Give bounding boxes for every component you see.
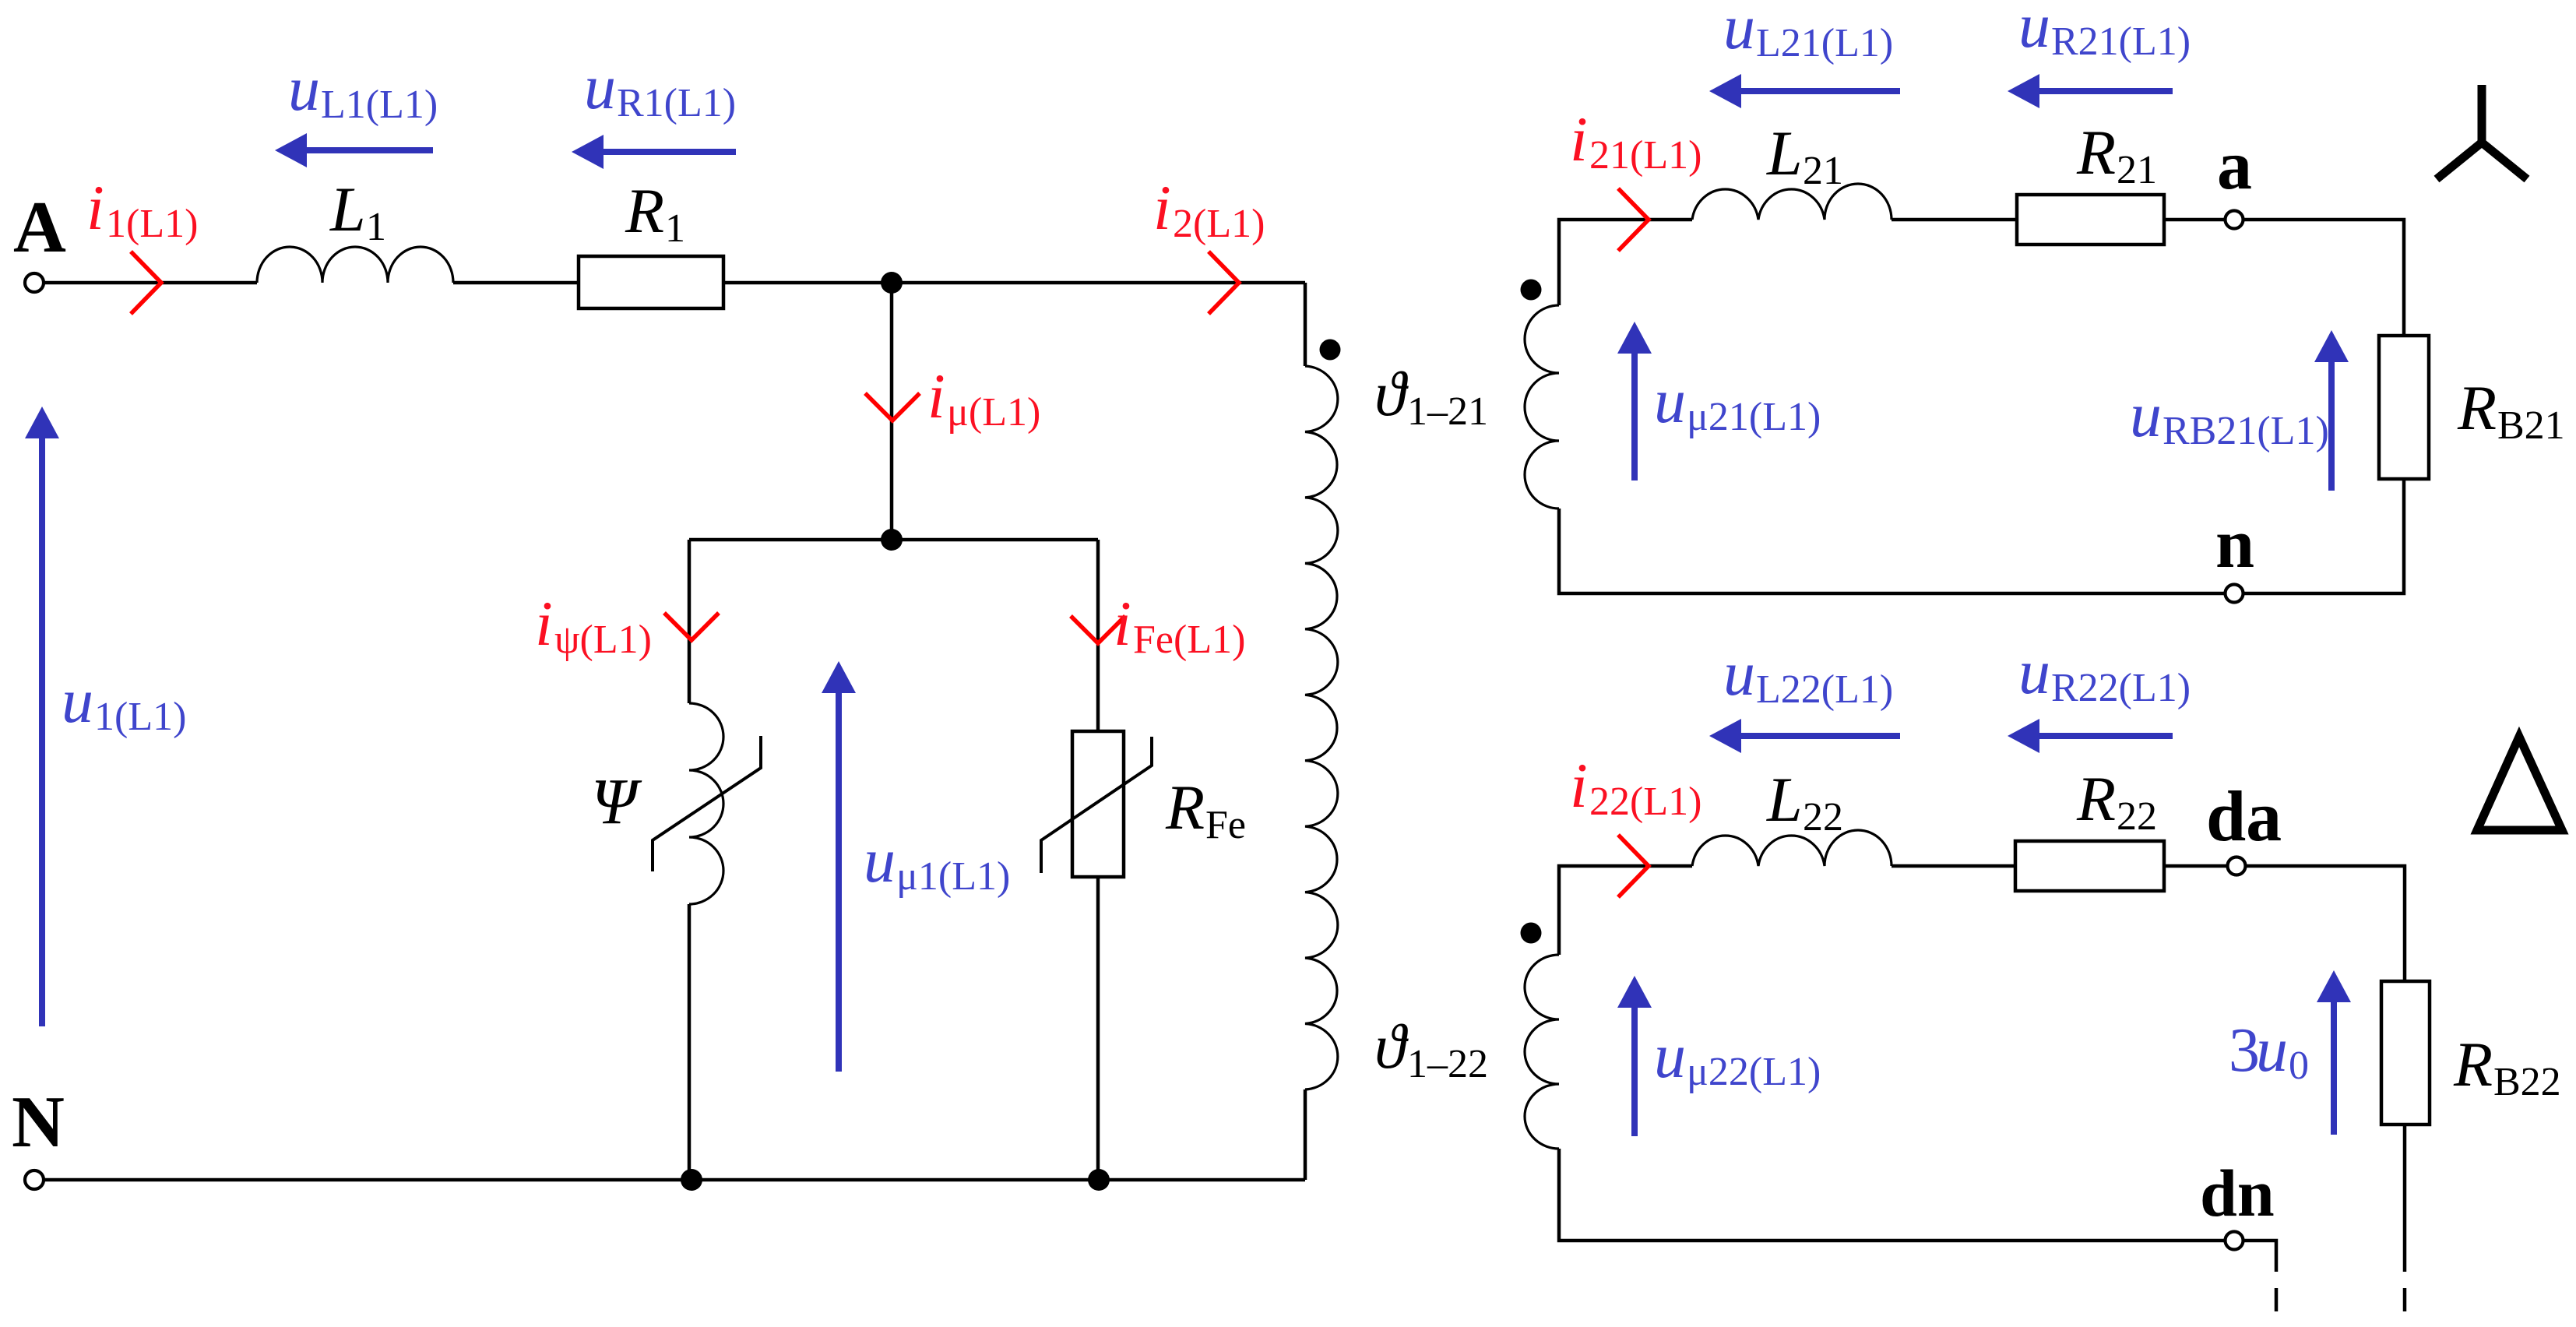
svg-text:21: 21 <box>2117 148 2157 192</box>
wire L22 to R22 <box>1892 864 2015 868</box>
label R21 <box>2076 117 2157 192</box>
svg-text:ϑ: ϑ <box>1374 1011 1409 1082</box>
voltage arrow u_mu1(L1) <box>822 661 856 1072</box>
resistor R21 <box>2017 195 2164 245</box>
svg-text:μ1(L1): μ1(L1) <box>896 854 1010 899</box>
wire RB22 bottom dashed <box>2403 1288 2407 1327</box>
svg-text:R: R <box>625 175 664 246</box>
svg-text:R: R <box>1165 772 1205 843</box>
voltage arrow uL21(L1) <box>1709 74 1900 108</box>
svg-text:21: 21 <box>1803 149 1843 193</box>
wire RFe branch bottom <box>1096 877 1100 1180</box>
label theta 1-21 <box>1374 358 1488 434</box>
label i2(L1) <box>1153 172 1265 246</box>
label uRB21(L1) <box>2130 379 2329 453</box>
voltage arrow uR1(L1) <box>572 135 736 169</box>
svg-text:Fe(L1): Fe(L1) <box>1133 618 1245 662</box>
wire R1 to corner <box>723 281 1305 285</box>
junction dot bottom left <box>681 1169 702 1191</box>
secondary winding 22 <box>1525 955 1559 1149</box>
label u_mu22(L1) <box>1654 1020 1821 1094</box>
svg-text:u: u <box>288 53 320 124</box>
svg-text:2(L1): 2(L1) <box>1173 202 1265 246</box>
junction dot bottom right <box>1088 1169 1110 1191</box>
wire R21 to a <box>2164 218 2225 222</box>
wire primary bottom <box>1304 1089 1307 1180</box>
wire RFe branch top <box>1096 540 1100 731</box>
label L22 <box>1766 764 1843 839</box>
junction node 1 <box>881 272 903 294</box>
svg-text:u: u <box>2256 1014 2288 1085</box>
secondary winding 21 <box>1525 305 1559 509</box>
svg-text:μ21(L1): μ21(L1) <box>1687 395 1821 439</box>
label da <box>2206 776 2282 856</box>
svg-text:i: i <box>1570 104 1588 174</box>
svg-text:L21(L1): L21(L1) <box>1756 21 1893 65</box>
label R1 <box>625 175 685 251</box>
Psi saturation slash <box>653 736 761 871</box>
svg-text:22(L1): 22(L1) <box>1589 780 1701 824</box>
wire A to L1 <box>44 281 257 285</box>
RFe slash <box>1041 737 1152 873</box>
polarity dot primary <box>1320 340 1341 361</box>
label i1(L1) <box>86 172 198 246</box>
label L21 <box>1766 118 1843 193</box>
label N <box>12 1082 65 1163</box>
svg-text:u: u <box>1654 365 1686 436</box>
voltage arrow uR22(L1) <box>2008 719 2173 753</box>
svg-text:R22(L1): R22(L1) <box>2051 666 2191 710</box>
svg-text:L: L <box>1766 764 1803 835</box>
wire dn corner dashed <box>2275 1288 2279 1327</box>
voltage arrow uL1(L1) <box>275 133 433 167</box>
terminal A <box>25 273 44 292</box>
svg-text:0: 0 <box>2289 1044 2309 1088</box>
svg-text:1–21: 1–21 <box>1407 389 1488 434</box>
label uR21(L1) <box>2018 0 2191 64</box>
svg-text:22: 22 <box>2117 794 2157 839</box>
svg-text:u: u <box>2130 379 2162 450</box>
svg-text:A: A <box>13 187 66 268</box>
svg-text:R1(L1): R1(L1) <box>617 81 736 125</box>
wire RB21 to n <box>2243 479 2404 593</box>
current arrow i2(L1) <box>1209 252 1239 314</box>
label RB21 <box>2457 372 2565 448</box>
delta symbol <box>2477 737 2562 830</box>
svg-text:u: u <box>2018 636 2050 707</box>
svg-text:R: R <box>2453 1029 2493 1100</box>
terminal da <box>2228 857 2246 875</box>
resistor RB22 <box>2381 981 2430 1125</box>
current arrow i21(L1) <box>1618 188 1649 251</box>
svg-text:3: 3 <box>2229 1016 2260 1085</box>
svg-text:i: i <box>86 172 104 243</box>
svg-text:1: 1 <box>366 205 386 249</box>
label theta 1-22 <box>1374 1011 1488 1086</box>
label u_mu21(L1) <box>1654 365 1821 439</box>
node A label <box>13 187 66 268</box>
label dn <box>2200 1156 2275 1230</box>
label u_mu1(L1) <box>864 825 1010 899</box>
svg-text:L: L <box>329 174 366 245</box>
wire da to RB22 <box>2246 866 2405 981</box>
svg-text:u: u <box>1723 638 1755 709</box>
voltage arrow uRB21(L1) <box>2314 330 2349 491</box>
label RFe <box>1165 772 1246 847</box>
svg-text:R: R <box>2076 117 2116 188</box>
svg-text:dn: dn <box>2200 1156 2275 1230</box>
wire RB22 bottom solid <box>2403 1125 2407 1272</box>
wire corner down to primary <box>1304 283 1307 366</box>
wye symbol <box>2437 85 2527 179</box>
svg-text:1–22: 1–22 <box>1407 1042 1488 1086</box>
current arrow i_Fe(L1) <box>1071 616 1125 643</box>
svg-text:Ψ: Ψ <box>591 766 642 838</box>
svg-text:i: i <box>927 361 945 431</box>
svg-text:Fe: Fe <box>1205 803 1246 847</box>
svg-text:L22(L1): L22(L1) <box>1756 667 1893 712</box>
svg-text:B22: B22 <box>2493 1060 2561 1104</box>
svg-text:RB21(L1): RB21(L1) <box>2163 409 2329 453</box>
svg-text:21(L1): 21(L1) <box>1589 133 1701 178</box>
voltage arrow uR21(L1) <box>2008 74 2173 108</box>
voltage arrow uL22(L1) <box>1709 719 1900 753</box>
svg-text:da: da <box>2206 776 2282 856</box>
svg-text:i: i <box>1114 588 1131 659</box>
label i21(L1) <box>1570 104 1701 178</box>
svg-text:R: R <box>2457 372 2497 443</box>
label u1(L1) <box>62 665 186 739</box>
svg-text:i: i <box>535 588 553 659</box>
svg-text:n: n <box>2215 505 2254 583</box>
wire n to winding21 <box>1559 509 2225 593</box>
svg-text:L1(L1): L1(L1) <box>321 83 438 127</box>
svg-text:μ22(L1): μ22(L1) <box>1687 1050 1821 1094</box>
resistor RFe <box>1072 731 1124 877</box>
bottom wire N <box>34 1178 1305 1182</box>
terminal N <box>25 1170 44 1189</box>
resistor RB21 <box>2379 336 2429 479</box>
label L1 <box>329 174 386 249</box>
label a <box>2217 127 2252 204</box>
label i_mu(L1) <box>927 361 1040 435</box>
svg-text:ϑ: ϑ <box>1374 358 1409 429</box>
voltage arrow 3u0 <box>2317 970 2351 1135</box>
inductor L1 <box>257 247 453 283</box>
svg-text:ψ(L1): ψ(L1) <box>554 618 652 662</box>
wire winding22 top corner <box>1559 866 1692 955</box>
svg-text:R21(L1): R21(L1) <box>2051 19 2191 64</box>
label i_psi(L1) <box>535 588 652 662</box>
svg-text:1(L1): 1(L1) <box>106 202 198 246</box>
label i_Fe(L1) <box>1114 588 1245 662</box>
label R22 <box>2076 763 2157 839</box>
label Psi <box>591 766 642 838</box>
svg-text:L: L <box>1766 118 1803 188</box>
svg-text:u: u <box>584 51 616 122</box>
wire junction1 down to junction2 <box>890 283 894 540</box>
resistor R1 <box>579 256 723 308</box>
svg-text:22: 22 <box>1803 795 1843 839</box>
svg-text:a: a <box>2217 127 2252 204</box>
wire dn corner solid <box>2243 1241 2276 1272</box>
wire shunt top <box>689 538 1098 542</box>
current arrow i1(L1) <box>131 252 161 314</box>
svg-text:1(L1): 1(L1) <box>94 695 186 739</box>
terminal a <box>2226 211 2243 229</box>
label n <box>2215 505 2254 583</box>
polarity dot winding21 <box>1521 280 1542 301</box>
wire psi branch top <box>688 540 692 703</box>
wire a to RB21 <box>2243 220 2404 336</box>
svg-text:N: N <box>12 1082 65 1163</box>
label i22(L1) <box>1570 750 1701 824</box>
svg-text:B21: B21 <box>2497 403 2565 448</box>
current arrow i_mu(L1) <box>865 393 920 421</box>
svg-text:u: u <box>1654 1020 1686 1091</box>
svg-text:i: i <box>1570 750 1588 821</box>
wire L21 to R21 <box>1892 218 2017 222</box>
inductor L21 <box>1692 184 1892 220</box>
svg-text:u: u <box>62 665 93 736</box>
current arrow i22(L1) <box>1618 835 1649 897</box>
wire psi branch bottom <box>688 904 692 1180</box>
svg-text:μ(L1): μ(L1) <box>947 390 1040 435</box>
svg-text:u: u <box>864 825 896 896</box>
polarity dot winding22 <box>1521 923 1542 944</box>
nonlinear inductor Psi coil <box>689 703 723 904</box>
voltage arrow u_mu22(L1) <box>1617 976 1652 1136</box>
label uL22(L1) <box>1723 638 1893 712</box>
wire winding22 bottom to dn <box>1559 1149 2225 1241</box>
wire L1 to R1 <box>453 281 579 285</box>
junction node 2 <box>881 529 903 551</box>
label 3u0 <box>2229 1014 2309 1088</box>
svg-text:i: i <box>1153 172 1171 243</box>
current arrow i_psi(L1) <box>664 613 719 640</box>
svg-text:u: u <box>1723 0 1755 62</box>
voltage arrow u1(L1) <box>25 407 59 1026</box>
label RB22 <box>2453 1029 2561 1104</box>
inductor L22 <box>1692 830 1892 866</box>
svg-text:R: R <box>2076 763 2116 834</box>
label uR1(L1) <box>584 51 736 125</box>
label uL21(L1) <box>1723 0 1893 65</box>
svg-text:1: 1 <box>665 206 685 251</box>
svg-text:u: u <box>2018 0 2050 61</box>
label uL1(L1) <box>288 53 438 127</box>
label uR22(L1) <box>2018 636 2191 710</box>
terminal n <box>2226 585 2243 603</box>
resistor R22 <box>2015 841 2164 891</box>
wire winding21 top corner <box>1559 220 1692 305</box>
transformer primary winding <box>1305 366 1338 1089</box>
voltage arrow u_mu21(L1) <box>1617 322 1652 480</box>
wire R22 to da <box>2164 864 2227 868</box>
terminal dn <box>2226 1232 2243 1250</box>
